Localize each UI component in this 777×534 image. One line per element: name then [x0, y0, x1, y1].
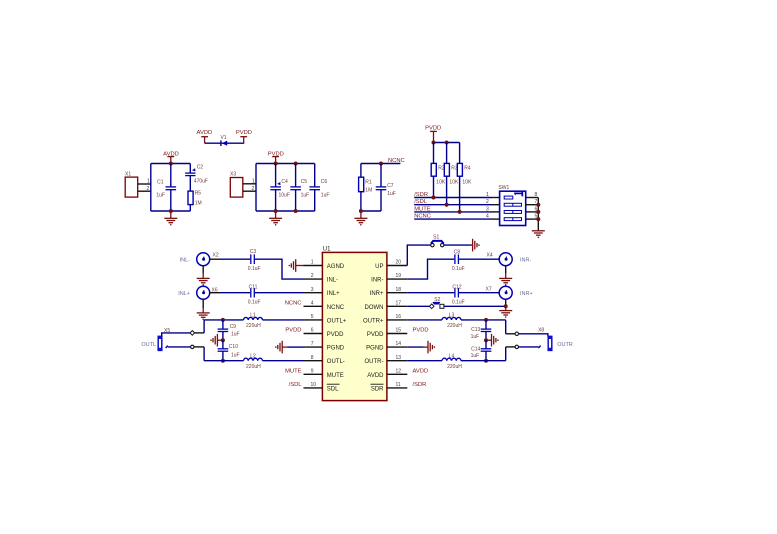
U1 pin 9 MUTE	[304, 368, 344, 378]
node junction mid (C9/C10)	[221, 338, 225, 342]
svg-text:L3: L3	[449, 313, 455, 319]
X6 ground stem	[202, 299, 204, 313]
connector X3	[230, 171, 243, 197]
pin 1 of X3	[243, 178, 256, 184]
svg-text:8: 8	[535, 192, 538, 198]
power port PVDD (right of V1)	[236, 130, 252, 143]
wire X8 top circle to jack	[519, 334, 548, 337]
svg-text:C3: C3	[250, 249, 257, 255]
pushbutton S1	[431, 235, 444, 247]
svg-text:PGND: PGND	[366, 346, 384, 352]
capacitor C4 (polarized 10uF)	[270, 164, 290, 212]
wire pin16 row (OUTR+)	[407, 319, 442, 321]
svg-text:C7: C7	[387, 183, 394, 189]
wire C11 to pin 3	[255, 292, 304, 294]
capacitor C2 (polarized 470uF)	[185, 164, 208, 192]
wire: X1 bottom rail	[151, 210, 191, 212]
wire L1 to pin 5	[263, 319, 304, 321]
wire pin5 row (OUTL+)	[204, 319, 243, 321]
capacitor C3	[248, 249, 261, 272]
svg-text:C1: C1	[157, 179, 164, 185]
svg-text:0.1uF: 0.1uF	[248, 299, 261, 305]
SW1 pin 7	[526, 199, 539, 205]
node junction R2 top	[432, 141, 436, 145]
SW1 pin 3	[486, 206, 500, 212]
svg-text:20: 20	[396, 260, 402, 266]
svg-text:5: 5	[311, 314, 314, 320]
wire pin8 row (OUTL-)	[204, 360, 243, 362]
wire S2 to X7 junction	[444, 305, 506, 307]
svg-text:PVDD: PVDD	[285, 328, 301, 334]
U1 pin 15 PVDD	[367, 328, 407, 338]
svg-text:X1: X1	[125, 171, 131, 177]
svg-text:OUTL-: OUTL-	[327, 359, 345, 365]
wire pin 18 to C12	[407, 292, 454, 294]
svg-text:L1: L1	[250, 313, 256, 319]
node junction at PVDD	[274, 162, 278, 166]
svg-text:3: 3	[486, 206, 489, 212]
wire C3 to pin 2 (jog)	[255, 259, 304, 279]
svg-text:SDL: SDL	[327, 386, 339, 392]
node: bottom junction under C4	[274, 209, 278, 213]
svg-text:C14: C14	[471, 347, 480, 353]
wire corner to X8 top	[505, 320, 507, 334]
U1 pin 3 INL+	[304, 287, 341, 297]
svg-text:V1: V1	[220, 135, 226, 141]
SW1 pin 2	[486, 199, 500, 205]
wire L2 to pin 8	[263, 360, 304, 362]
connector X4 (RCA)	[487, 253, 513, 266]
wire: line 3 to SW1	[414, 211, 492, 213]
X5 tip contact tick	[166, 346, 168, 348]
svg-text:1uF: 1uF	[301, 193, 310, 199]
wire corner to X5 bottom	[203, 347, 205, 361]
svg-text:X4: X4	[487, 253, 493, 259]
ground (left of C9/C10 mid)	[210, 334, 223, 347]
node junction R4 on line3	[458, 210, 462, 214]
pin 2 of X1	[138, 186, 151, 192]
ground at pin 14 (sideways right)	[407, 341, 435, 354]
svg-text:OUTR-: OUTR-	[365, 359, 384, 365]
X8 pin terminal (top circle)	[515, 332, 518, 335]
ground (below C4)	[269, 211, 282, 226]
wire pin 17 to S2	[407, 305, 429, 307]
wire X5 sleeve to diamond	[162, 333, 191, 337]
wire: R1/C7 bottom rail	[361, 210, 381, 212]
U1 pin 10 SDL (active low)	[304, 382, 340, 392]
power port PVDD (above R2)	[425, 126, 441, 143]
svg-text:PVDD: PVDD	[367, 332, 384, 338]
svg-text:1: 1	[147, 179, 150, 185]
wire X2 to C3	[219, 258, 250, 260]
node junction SW1 pin6	[536, 210, 540, 214]
U1 pin 14 PGND	[366, 341, 407, 351]
U1 pin 1 AGND	[304, 260, 345, 270]
svg-text:INL+: INL+	[327, 291, 340, 297]
svg-text:AVDD: AVDD	[367, 373, 384, 379]
svg-text:1uF: 1uF	[231, 332, 240, 338]
capacitor C7	[376, 164, 396, 212]
connector X6 (RCA)	[197, 286, 218, 299]
node junction X7/S2	[504, 304, 508, 308]
resistor R3	[444, 143, 459, 205]
svg-text:X3: X3	[230, 171, 236, 177]
svg-text:L4: L4	[449, 354, 455, 360]
svg-text:U1: U1	[323, 247, 331, 253]
ground (below X2)	[197, 278, 210, 285]
svg-text:INL-: INL-	[180, 258, 191, 264]
inductor L4	[442, 354, 462, 371]
svg-text:2: 2	[311, 273, 314, 279]
pin stub corner to X8 top circle	[506, 333, 515, 335]
wire S1 to ground	[444, 244, 472, 246]
svg-text:3: 3	[311, 287, 314, 293]
wire C12 to X7	[459, 292, 499, 294]
capacitor C13	[471, 320, 492, 340]
svg-text:10K: 10K	[436, 180, 446, 186]
svg-text:PVDD: PVDD	[425, 126, 441, 132]
wire L4 to corner	[461, 360, 506, 362]
wire: X3 top rail	[256, 163, 315, 165]
inductor L1	[244, 313, 263, 330]
svg-text:C6: C6	[321, 179, 328, 185]
svg-text:MUTE: MUTE	[285, 368, 302, 374]
svg-text:X7: X7	[486, 286, 492, 292]
wire: line 4 to SW1	[414, 218, 492, 220]
U1 pin 5 OUTL+	[304, 314, 347, 324]
connector X1	[125, 171, 138, 197]
U1 pin 6 PVDD	[304, 328, 345, 338]
wire pin 19 to C8 (jog)	[407, 259, 454, 279]
wire pin13 row (OUTR-)	[407, 360, 442, 362]
node junction C14 bottom	[484, 359, 488, 363]
svg-text:PVDD: PVDD	[236, 130, 252, 136]
svg-text:SW1: SW1	[498, 185, 509, 191]
svg-text:1: 1	[252, 178, 255, 184]
svg-text:7: 7	[311, 341, 314, 347]
connector X5 jack body	[158, 328, 171, 351]
svg-text:1uF: 1uF	[471, 334, 480, 340]
svg-text:16: 16	[396, 314, 402, 320]
connector X7 (RCA)	[486, 286, 513, 299]
SW1 pin 5	[526, 214, 539, 220]
X8 pin terminal (bottom circle)	[515, 345, 518, 348]
svg-text:/SDR: /SDR	[413, 382, 427, 388]
svg-text:1uF: 1uF	[321, 193, 330, 199]
node junction C13 top	[484, 318, 488, 322]
U1 pin 13 OUTR-	[365, 355, 408, 365]
SW1 pin 6	[526, 206, 539, 212]
node junction R2 on line1	[432, 196, 436, 200]
node junction SW1 pin7	[536, 203, 540, 207]
wire: X3 left rail	[255, 164, 257, 212]
U1 pin 17 DOWN	[365, 300, 408, 310]
node junction mid (C13/C14)	[484, 338, 488, 342]
svg-text:4: 4	[311, 300, 314, 306]
svg-text:1: 1	[486, 192, 489, 198]
wire: X3 bottom rail	[256, 210, 315, 212]
node AVDD junction	[169, 162, 173, 166]
svg-text:2: 2	[147, 186, 150, 192]
resistor R2	[431, 143, 446, 198]
pin stub corner to X8 bottom circle	[506, 346, 515, 348]
svg-text:1uF: 1uF	[471, 353, 480, 359]
wire X8 bottom circle to tip	[519, 346, 539, 348]
SW1 pin 4	[486, 214, 500, 220]
X8 tip contact tick	[538, 346, 540, 348]
svg-text:13: 13	[396, 355, 402, 361]
U1 pin 12 AVDD	[367, 368, 407, 378]
U1 pin 20 UP	[375, 260, 407, 270]
svg-text:220uH: 220uH	[246, 364, 261, 370]
node junction at C5 top	[294, 162, 298, 166]
svg-text:12: 12	[396, 368, 402, 374]
svg-text:DOWN: DOWN	[365, 305, 384, 311]
U1 pin 19 INR-	[371, 273, 407, 283]
wire X6 to C11	[219, 292, 250, 294]
svg-text:/SDL: /SDL	[289, 382, 303, 388]
svg-text:NCNC: NCNC	[327, 305, 345, 311]
svg-text:R1: R1	[365, 180, 372, 186]
node junction C10 bottom	[221, 359, 225, 363]
pin 2 of X3	[243, 186, 256, 192]
svg-text:PVDD: PVDD	[327, 332, 344, 338]
pin of X2	[210, 258, 220, 260]
svg-text:2: 2	[252, 186, 255, 192]
ground (below X7)	[499, 311, 512, 318]
svg-text:OUTR+: OUTR+	[363, 318, 384, 324]
svg-text:18: 18	[396, 287, 402, 293]
wire C8 to X4	[459, 258, 499, 260]
svg-text:PVDD: PVDD	[413, 328, 429, 334]
ground (below C1)	[164, 211, 177, 226]
svg-text:C13: C13	[471, 327, 480, 333]
svg-text:OUTR: OUTR	[557, 342, 573, 348]
svg-text:S1: S1	[433, 235, 439, 241]
svg-text:4: 4	[486, 214, 489, 220]
capacitor C12	[452, 284, 465, 305]
svg-text:R4: R4	[464, 166, 471, 172]
svg-text:NCNC: NCNC	[285, 300, 302, 306]
node junction R3 on line2	[445, 203, 449, 207]
ground (right of C13/C14 mid)	[486, 334, 499, 347]
svg-text:0.1uF: 0.1uF	[452, 266, 465, 272]
svg-text:10uF: 10uF	[279, 193, 290, 199]
U1 pin 11 SDR (active low)	[371, 382, 408, 392]
svg-text:0.1uF: 0.1uF	[248, 266, 261, 272]
capacitor C14	[471, 340, 492, 361]
op-amp/amplifier U1 body	[322, 247, 387, 401]
svg-text:C8: C8	[454, 249, 461, 255]
svg-text:AVDD: AVDD	[197, 130, 213, 136]
svg-text:C2: C2	[197, 165, 204, 171]
svg-text:1: 1	[311, 260, 314, 266]
svg-text:1M: 1M	[365, 187, 372, 193]
svg-text:0.1uF: 0.1uF	[452, 299, 465, 305]
svg-text:6: 6	[311, 328, 314, 334]
svg-text:19: 19	[396, 273, 402, 279]
svg-text:INL-: INL-	[327, 278, 338, 284]
svg-text:1uF: 1uF	[156, 193, 165, 199]
svg-text:220uH: 220uH	[447, 364, 462, 370]
pin 1 of X1	[138, 179, 151, 185]
svg-text:C9: C9	[230, 324, 237, 330]
power port PVDD (above C4)	[268, 151, 284, 163]
node: bottom junction under C5	[294, 209, 298, 213]
svg-text:UP: UP	[375, 264, 383, 270]
ground (below SW1)	[532, 231, 545, 238]
X5 pin terminal (circle)	[191, 345, 194, 348]
wire L3 to corner	[461, 319, 506, 321]
svg-text:INR+: INR+	[520, 291, 533, 297]
svg-text:INL+: INL+	[178, 291, 190, 297]
U1 pin 7 PGND	[304, 341, 345, 351]
capacitor C6	[309, 164, 329, 212]
U1 pin 2 INL-	[304, 273, 339, 283]
svg-text:9: 9	[311, 368, 314, 374]
svg-text:220uH: 220uH	[246, 323, 261, 329]
svg-text:C4: C4	[281, 179, 288, 185]
capacitor C8	[452, 249, 465, 272]
svg-text:15: 15	[396, 328, 402, 334]
connector X2 (RCA)	[197, 253, 219, 266]
wire X5 tip to circle	[168, 346, 191, 348]
wire: pullup top rail	[434, 142, 460, 144]
svg-text:PGND: PGND	[327, 346, 345, 352]
svg-text:S2: S2	[434, 297, 440, 303]
U1 pin 16 OUTR+	[363, 314, 407, 324]
wire: line 2 to SW1	[414, 204, 492, 206]
power port AVDD (above C1)	[163, 151, 179, 163]
ground (right of S1, sideways right)	[472, 239, 480, 252]
node junction C9 top	[221, 318, 225, 322]
ground (below X4)	[499, 278, 512, 285]
svg-text:1uF: 1uF	[231, 352, 240, 358]
wire pin 20 to S1	[407, 245, 431, 265]
svg-text:17: 17	[396, 300, 402, 306]
ground at pin 1 (sideways left)	[289, 259, 304, 272]
wire: SW1 right rail to ground	[537, 198, 539, 231]
wire corner to X5 top	[203, 320, 205, 333]
node: bottom junction of X1 group	[169, 209, 173, 213]
svg-text:C10: C10	[229, 344, 238, 350]
capacitor C10	[218, 340, 240, 361]
svg-text:220uH: 220uH	[447, 323, 462, 329]
connector X8 jack body	[538, 328, 552, 351]
SW1 pin 8	[526, 192, 539, 198]
svg-text:8: 8	[311, 355, 314, 361]
wire: X1 top rail	[151, 163, 191, 165]
switch SW1 (DIP-4)	[498, 185, 525, 226]
inductor L3	[442, 313, 462, 330]
svg-text:10: 10	[310, 382, 316, 388]
X2 ground stem	[202, 266, 204, 279]
wire: NCNC top rail	[361, 163, 401, 165]
svg-text:SDR: SDR	[371, 386, 384, 392]
node junction R3 top	[445, 141, 449, 145]
svg-text:X2: X2	[213, 253, 219, 259]
resistor R1	[359, 164, 373, 212]
diode V1	[220, 135, 227, 146]
wire: line 1 to SW1	[414, 197, 492, 199]
pin of X6	[210, 292, 220, 294]
svg-text:AVDD: AVDD	[413, 368, 429, 374]
resistor R5	[188, 190, 202, 211]
svg-text:OUTL+: OUTL+	[327, 318, 347, 324]
node junction SW1 pin5	[536, 217, 540, 221]
svg-text:L2: L2	[250, 354, 256, 360]
U1 pin 8 OUTL-	[304, 355, 345, 365]
pin stub circle to corner	[194, 346, 204, 348]
capacitor C1	[156, 164, 176, 212]
capacitor C5	[290, 164, 309, 212]
wire: X1 left rail	[150, 164, 152, 212]
svg-text:14: 14	[396, 341, 402, 347]
node: bottom junction under R1	[359, 209, 363, 213]
svg-text:AGND: AGND	[327, 264, 345, 270]
power port AVDD (left of V1)	[197, 130, 213, 143]
svg-text:INR-: INR-	[371, 278, 383, 284]
X7 ground stem	[505, 299, 507, 311]
SW1 pin 1	[486, 192, 500, 198]
svg-text:11: 11	[396, 382, 401, 388]
node junction at C7 top	[379, 162, 383, 166]
capacitor C11	[248, 284, 261, 305]
ground at pin 7 (sideways left)	[275, 341, 304, 354]
svg-text:R5: R5	[195, 190, 202, 196]
svg-text:C11: C11	[249, 284, 258, 290]
svg-text:C12: C12	[452, 284, 461, 290]
svg-text:INR+: INR+	[370, 291, 384, 297]
svg-text:1uF: 1uF	[387, 191, 396, 197]
svg-text:C5: C5	[301, 179, 308, 185]
X5 pin terminal (diamond)	[190, 331, 195, 336]
pin stub diamond to corner	[195, 332, 205, 334]
wire V1 row	[205, 142, 245, 144]
svg-text:10K: 10K	[449, 180, 459, 186]
svg-text:X8: X8	[538, 328, 544, 334]
svg-text:470uF: 470uF	[194, 179, 208, 185]
X4 ground stem	[505, 266, 507, 279]
svg-text:NCNC: NCNC	[388, 158, 405, 164]
U1 pin 18 INR+	[370, 287, 408, 297]
inductor L2	[244, 354, 263, 371]
capacitor C9	[218, 320, 240, 340]
wire corner to X8 bottom	[505, 347, 507, 361]
svg-text:INR-: INR-	[520, 258, 531, 264]
pushbutton S2	[429, 297, 444, 308]
ground (below R1)	[354, 211, 367, 226]
svg-text:10K: 10K	[462, 180, 472, 186]
svg-text:2: 2	[486, 199, 489, 205]
U1 pin 4 NCNC	[304, 300, 345, 310]
svg-text:1M: 1M	[195, 200, 202, 206]
svg-text:MUTE: MUTE	[327, 373, 344, 379]
svg-text:OUTL: OUTL	[141, 342, 156, 348]
ground (below X6)	[197, 313, 210, 320]
resistor R4	[457, 143, 472, 212]
